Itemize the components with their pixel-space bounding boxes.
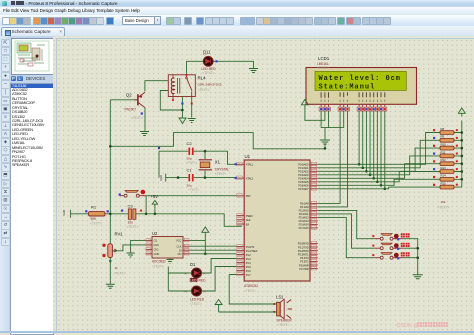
junction rail (461, 178, 464, 181)
svg-text:CLK: CLK (176, 244, 181, 248)
svg-text:P0.2/AD2: P0.2/AD2 (298, 170, 309, 174)
wire LCD D4 to P0.4 (373, 111, 375, 178)
wire buttons to ground (403, 239, 418, 275)
LCD LCD1 LM016L (306, 68, 417, 105)
junction LCD gnd / sensor loop (324, 147, 327, 150)
speaker LS1 (277, 299, 293, 319)
wire C2 left down (158, 151, 160, 177)
svg-text:Water level: 0cm: Water level: 0cm (319, 75, 401, 83)
svg-text:GND: GND (62, 210, 66, 216)
svg-text:P1.2: P1.2 (246, 253, 252, 257)
svg-text:R10: R10 (441, 143, 447, 147)
svg-text:C3: C3 (128, 203, 134, 208)
svg-text:P0.0/AD0: P0.0/AD0 (298, 163, 309, 167)
wire P2.4 to button 3 (318, 217, 375, 257)
resistor R13 pull-up (434, 166, 462, 174)
svg-text:LCD1: LCD1 (318, 56, 330, 61)
junction D0/P0.0 (358, 163, 361, 166)
wire gnd to C1 (169, 177, 188, 179)
junction X1 top (204, 150, 207, 153)
svg-text:ADC0832: ADC0832 (152, 260, 166, 264)
svg-text:P2.6/A14: P2.6/A14 (299, 223, 310, 227)
resistor R8 pull-up (434, 127, 462, 135)
svg-text:C1: C1 (187, 168, 193, 173)
svg-text:-RED: -RED (198, 278, 206, 282)
junction D2/P0.2 (365, 170, 368, 173)
wire P0.0 to pull-up resistor (318, 133, 434, 165)
svg-text:AT89C52: AT89C52 (244, 284, 258, 288)
svg-text:X1: X1 (215, 160, 221, 165)
wire VCC to +5V (189, 235, 205, 240)
svg-text:State:Manul: State:Manul (319, 84, 376, 92)
capacitor C3 (128, 209, 136, 219)
svg-text:P1.1/T2EX: P1.1/T2EX (246, 249, 258, 253)
junction +5V branch (154, 213, 157, 216)
wire LCD D2 to P0.2 (365, 111, 367, 171)
wire D11 anode to relay switch (187, 61, 204, 75)
svg-text:P0.4/AD4: P0.4/AD4 (298, 177, 309, 181)
wire LCD D5 to P0.5 (376, 111, 378, 182)
junction relay return (181, 109, 184, 112)
wire pull-up rail (461, 121, 463, 188)
svg-text:LED-RED: LED-RED (190, 298, 205, 302)
svg-text:<TEXT>: <TEXT> (114, 272, 126, 276)
wire P2.3 to button 2 (318, 214, 375, 248)
svg-text:P0.6/AD6: P0.6/AD6 (298, 184, 309, 188)
junction D6/P0.6 (380, 184, 383, 187)
svg-text:R1: R1 (91, 205, 97, 210)
tab bar (0, 26, 474, 36)
svg-text:P2.7/A15: P2.7/A15 (299, 226, 310, 230)
junction D3/P0.3 (369, 174, 372, 177)
svg-text:P1.5: P1.5 (246, 265, 252, 269)
junction rail (461, 147, 464, 150)
resistor R1 (89, 212, 106, 216)
wire LCD gnd bus (321, 111, 344, 128)
svg-text:U1: U1 (245, 154, 251, 159)
wire R1 to C3 (105, 213, 128, 215)
potentiometer RV1 POT-HG (108, 244, 117, 258)
wire DI to P1.1 (189, 249, 236, 251)
svg-text:G2RL-14B-CF-DC5: G2RL-14B-CF-DC5 (198, 83, 222, 87)
svg-text:XTAL1: XTAL1 (246, 163, 254, 167)
junction sensor/R1 junction (109, 213, 112, 216)
capacitor C2 (189, 148, 193, 155)
svg-text:P3.7/RD: P3.7/RD (299, 267, 308, 271)
wire U2 GND stub (169, 258, 171, 259)
svg-text:<TEXT>: <TEXT> (131, 116, 143, 120)
junction sensor loop (109, 145, 112, 148)
svg-text:CH1: CH1 (154, 248, 160, 252)
junction btn rail2 (416, 256, 419, 259)
svg-text:<TEXT>: <TEXT> (190, 302, 202, 306)
junction rail (461, 131, 464, 134)
wire RL4 coil return (160, 91, 182, 111)
toolbar (0, 15, 474, 27)
svg-text:P2.2/A10: P2.2/A10 (299, 209, 310, 213)
wire X1 bottom lead (204, 171, 206, 178)
wire P2.2 to button 1 (318, 210, 375, 238)
ground terminal (crystal) (159, 174, 169, 182)
wire LCD D7 to P0.7 (384, 111, 386, 189)
svg-text:10u: 10u (128, 221, 134, 225)
svg-text:<TEXT>: <TEXT> (127, 225, 139, 229)
svg-text:P1.6: P1.6 (246, 269, 252, 273)
svg-text:<TEXT>: <TEXT> (152, 265, 164, 269)
svg-text:CRYSTAL: CRYSTAL (215, 168, 230, 172)
wire LCD gnd stem2 (324, 144, 326, 148)
svg-text:<TEXT>: <TEXT> (198, 88, 210, 92)
svg-text:ALE: ALE (246, 218, 251, 222)
earth triangle RL4 common (179, 118, 186, 124)
wire P0.3 to pull-up resistor (318, 156, 434, 175)
relay RL4 G2RL-14B-CF-DC5 (168, 75, 195, 100)
wire P0.4 to pull-up resistor (318, 164, 434, 179)
svg-text:<TEXT>: <TEXT> (188, 188, 199, 192)
junction rail (461, 139, 464, 142)
svg-text:RL4: RL4 (198, 76, 207, 81)
svg-text:<TEXT>: <TEXT> (90, 222, 102, 226)
button SW3 (减小) (374, 253, 403, 260)
wire CS to ground (131, 240, 146, 252)
ground U2 GND (167, 260, 174, 264)
svg-text:<TEXT>: <TEXT> (244, 289, 256, 293)
junction C2/C1 gnd (177, 176, 180, 179)
power +5V arrow pull-up rail (458, 108, 465, 117)
power +5V arrow LCD VDD (301, 100, 308, 109)
svg-text:P3.6/WR: P3.6/WR (299, 263, 309, 267)
wire speaker+ to P1.7 (229, 275, 276, 305)
svg-text:PN2907: PN2907 (125, 108, 137, 112)
svg-text:GND: GND (154, 252, 160, 256)
svg-text:P3.4/T0: P3.4/T0 (300, 256, 309, 260)
wire LCD D0 to P0.0 (358, 111, 360, 164)
svg-text:P2.4/A12: P2.4/A12 (299, 216, 310, 220)
button SW1 (设置) (374, 234, 403, 241)
svg-text:LED: LED (190, 278, 197, 282)
junction D5/P0.5 (376, 181, 379, 184)
junction btn rail (416, 247, 419, 250)
LED D1 LED-RED (192, 268, 202, 278)
junction button branch (145, 213, 148, 216)
svg-text:D11: D11 (203, 50, 211, 55)
svg-text:<TEXT>: <TEXT> (203, 71, 215, 75)
svg-text:1k: 1k (115, 266, 119, 270)
wire LCD gnd stem (324, 128, 326, 140)
wire D1 to P1.3 (202, 259, 237, 274)
button SW2 (增大) (374, 243, 403, 250)
wire DO to P1.2 (189, 253, 236, 255)
resistor R9 pull-up (434, 135, 462, 143)
ground D11 net (249, 69, 258, 73)
button (reset) (120, 191, 147, 198)
svg-text:P1.0/T2: P1.0/T2 (246, 245, 255, 249)
svg-text:R14: R14 (441, 174, 447, 178)
power +5V arrow U2 VCC (202, 227, 209, 236)
wire Q2 emitter to RL4 coil (145, 81, 168, 92)
resistor R14 pull-up (434, 174, 462, 182)
svg-text:D1: D1 (190, 262, 196, 267)
resistor R15 pull-up (434, 182, 462, 190)
ground terminal (sensor) (62, 210, 75, 218)
svg-text:XTAL2: XTAL2 (246, 176, 254, 180)
svg-text:R13: R13 (441, 166, 447, 170)
wire pot to ground (109, 258, 111, 284)
ground LCD (320, 140, 330, 144)
left tool strip (0, 36, 10, 333)
resistor R11 pull-up (434, 150, 462, 158)
junction D7/P0.7 (384, 188, 387, 191)
svg-text:P2.5/A13: P2.5/A13 (299, 219, 310, 223)
wire D11 cathode to ground (213, 61, 254, 68)
resistor R12 pull-up (434, 158, 462, 166)
microcontroller U1 AT89C52 (236, 160, 317, 281)
svg-text:P3.5/T1: P3.5/T1 (300, 260, 309, 264)
resistor R10 pull-up (434, 143, 462, 151)
svg-text:C2: C2 (187, 141, 193, 146)
junction rail (461, 162, 464, 165)
wire speaker arrow stem (218, 308, 220, 313)
junction D1/P0.1 (361, 167, 364, 170)
menu bar (0, 7, 474, 15)
wire +5V to VDD (305, 108, 325, 120)
ADC U2 ADC0832 (146, 237, 190, 259)
wire CLK to P1.0 (189, 245, 236, 247)
wire Q2 base (110, 99, 137, 101)
crystal X1 (199, 160, 212, 170)
wire LED anodes (168, 267, 191, 292)
wire C1 to XTAL2 (194, 177, 237, 179)
capacitor C1 (189, 174, 193, 181)
wire C2 left (159, 150, 188, 152)
ground U2 CS (127, 253, 135, 257)
wire sensor to R1 (75, 213, 88, 215)
svg-text:R9: R9 (441, 135, 445, 139)
svg-text:+5V: +5V (151, 194, 159, 199)
junction X1 bottom (204, 176, 207, 179)
wire P0.1 to pull-up resistor (318, 140, 434, 168)
svg-text:P2.1/A9: P2.1/A9 (300, 205, 309, 209)
svg-text:R11: R11 (441, 150, 446, 154)
svg-text:U2: U2 (152, 231, 158, 236)
wire LCD D3 to P0.3 (369, 111, 371, 175)
wire RL4 common to ground (181, 97, 183, 118)
wire sensor loop to LCD gnd net (110, 133, 325, 149)
wire LCD D6 to P0.6 (380, 111, 382, 185)
svg-text:RV1: RV1 (115, 231, 124, 236)
svg-text:RST: RST (246, 194, 251, 198)
power +5V arrow near C3 (152, 200, 157, 208)
junction DO crossing (204, 253, 207, 256)
svg-text:P1.3: P1.3 (246, 257, 252, 261)
sheet border (57, 39, 474, 334)
ground RV1 (106, 284, 115, 288)
junction rail (461, 155, 464, 158)
LED D2 LED-RED (192, 286, 202, 296)
wire button to RST (146, 195, 236, 197)
wire P0.5 to pull-up resistor (318, 172, 434, 182)
svg-text:EA: EA (246, 222, 250, 226)
svg-text:R12: R12 (441, 158, 447, 162)
svg-text:<TEXT>: <TEXT> (215, 172, 227, 176)
svg-text:CH0: CH0 (154, 243, 160, 247)
wire buttons rail joins (403, 248, 418, 258)
svg-text:CS: CS (154, 239, 158, 243)
svg-text:LS1: LS1 (276, 295, 284, 300)
svg-text:<TEXT>: <TEXT> (186, 161, 197, 165)
wire marker vertical (204, 240, 206, 253)
svg-text:P3.0/RXD: P3.0/RXD (298, 242, 309, 246)
wire LCD D1 to P0.1 (362, 111, 364, 168)
wire sensor net vertical (109, 100, 111, 244)
svg-text:DO: DO (178, 252, 182, 256)
junction D4/P0.4 (372, 177, 375, 180)
svg-text:P0.5/AD5: P0.5/AD5 (298, 180, 309, 184)
svg-text:SPEAKER: SPEAKER (277, 319, 293, 323)
wire P0.6 to pull-up resistor (318, 179, 434, 185)
wire D2 to P1.5 (202, 267, 237, 292)
wire P0.7 to pull-up resistor (318, 187, 434, 189)
wire X1 top lead (204, 151, 206, 159)
title bar (0, 0, 474, 7)
wire Q2 collector to ground (144, 108, 146, 131)
svg-text:R8: R8 (441, 127, 445, 131)
wire C2 to XTAL1 (194, 151, 237, 164)
svg-text:999: 999 (91, 217, 97, 221)
side panel (9, 36, 53, 333)
svg-text:Q2: Q2 (126, 93, 132, 98)
svg-text:CSDN @: CSDN @ (397, 323, 419, 329)
svg-text:<TEXT>: <TEXT> (438, 206, 450, 210)
svg-text:<TEXT>: <TEXT> (317, 66, 329, 70)
wire button to +5V rail (145, 196, 147, 214)
svg-text:P1.7: P1.7 (246, 273, 252, 277)
watermark (397, 322, 448, 329)
wire speaker- to +5V (219, 311, 277, 313)
svg-text:R15: R15 (441, 182, 447, 186)
wire +5V rail to EA (136, 214, 242, 227)
svg-text:VCC: VCC (176, 239, 182, 243)
wire +5V arrow stem (154, 209, 156, 214)
wire LCD E to P2.1 (318, 111, 348, 207)
svg-text:10k: 10k (441, 200, 446, 204)
wire P0.2 to pull-up resistor (318, 148, 434, 171)
svg-text:P2.3/A11: P2.3/A11 (299, 212, 309, 216)
ground RL4 contact (188, 119, 196, 123)
junction rail (461, 170, 464, 173)
svg-text:P3.3/INT1: P3.3/INT1 (298, 253, 309, 257)
wire pot wiper to CH0 (112, 245, 145, 251)
svg-text:P0.1/AD1: P0.1/AD1 (298, 166, 309, 170)
ground Q2 collector (140, 132, 149, 136)
svg-text:<TEXT>: <TEXT> (278, 323, 290, 327)
transistor Q2 PN2907 (134, 92, 145, 108)
wire LCD RS to P2.0 (318, 111, 340, 203)
svg-text:P0.7/AD7: P0.7/AD7 (298, 187, 309, 191)
svg-text:P1.4: P1.4 (246, 261, 252, 265)
svg-text:P0.3/AD3: P0.3/AD3 (298, 173, 309, 177)
wire RL4 contact to ground (191, 97, 193, 118)
ground buttons (413, 275, 423, 279)
svg-text:P3.2/INT0: P3.2/INT0 (298, 249, 309, 253)
svg-text:P2.0/A8: P2.0/A8 (300, 202, 309, 206)
svg-text:PSEN: PSEN (246, 214, 253, 218)
svg-text:DI: DI (179, 248, 182, 252)
LED D11 LED-RED (203, 54, 213, 67)
power +5V arrow speaker (215, 300, 222, 308)
svg-text:P3.1/TXD: P3.1/TXD (298, 245, 309, 249)
